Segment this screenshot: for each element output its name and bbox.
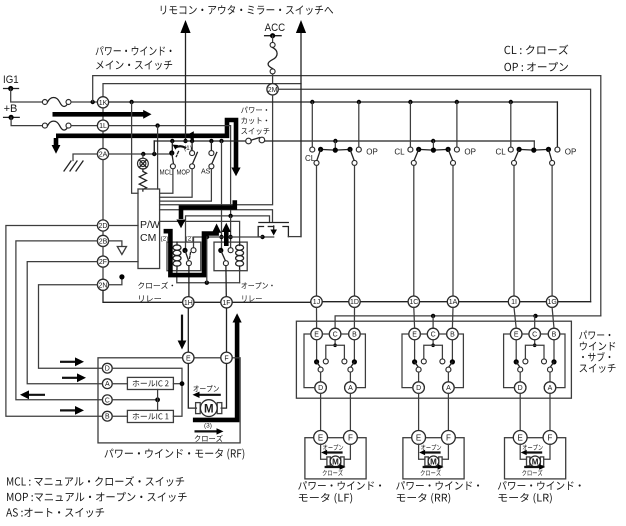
svg-text:1G: 1G — [547, 299, 556, 306]
arrow A line — [62, 373, 86, 382]
wire B to IC1 — [112, 415, 127, 417]
svg-text:D: D — [518, 385, 523, 392]
svg-text:2M: 2M — [268, 87, 278, 94]
wire 1K top to mirror line — [103, 84, 301, 97]
wire +B to fuse — [11, 117, 42, 125]
box hall IC1 — [127, 410, 173, 422]
motor LF symbol — [327, 456, 344, 467]
svg-text:1A: 1A — [449, 299, 458, 306]
motor LF connectors E F — [314, 431, 358, 445]
svg-text:C: C — [431, 332, 436, 339]
connector 2F — [97, 247, 108, 268]
svg-text:2A: 2A — [99, 152, 108, 159]
wire close relay to 1H — [188, 266, 190, 297]
wire 1K-row feed to P/W CM — [132, 102, 138, 193]
labels MCL MOP AS — [160, 169, 211, 177]
wire 1J to E1 — [316, 307, 318, 328]
fuse F2 — [42, 121, 71, 130]
wire power-cut riser to open relay contact — [228, 216, 232, 248]
label motor LF — [298, 481, 381, 504]
svg-text:B: B — [105, 414, 110, 421]
thick flow close relay loop — [164, 224, 222, 276]
close relay coil — [173, 242, 181, 271]
RR door switch — [394, 102, 476, 296]
svg-text:M: M — [204, 403, 214, 415]
motor LF wires — [321, 444, 351, 459]
wire fuse to 1K — [71, 100, 96, 104]
svg-text:A: A — [446, 385, 451, 392]
svg-text:A: A — [105, 381, 110, 388]
fuse ACC — [268, 36, 277, 84]
connector 1C — [408, 296, 419, 307]
wire 2A to ground — [73, 154, 97, 161]
switch MCL — [169, 141, 186, 169]
arrow annotation down to ground — [52, 138, 61, 154]
wire 1I to E3 — [514, 307, 516, 328]
wire 1D to B1 — [353, 307, 355, 328]
wire C to IC tap — [112, 390, 160, 411]
sub switch LF — [304, 328, 365, 393]
connector E — [183, 352, 194, 363]
svg-text:C: C — [105, 397, 110, 404]
connector 1A — [447, 296, 458, 307]
svg-text:B: B — [352, 332, 357, 339]
wire IG1 to fuse — [11, 89, 42, 103]
thick flow ACC to close coil — [176, 200, 234, 228]
wire 1H to 1F — [194, 301, 221, 303]
wire 2M row to right rail — [278, 89, 590, 301]
thick flow open up arrow — [222, 223, 231, 246]
fuse F1 — [42, 98, 71, 107]
svg-text:2N: 2N — [99, 282, 108, 289]
svg-text:E: E — [318, 433, 323, 442]
wire MCL return — [160, 169, 173, 193]
wire 2D to B — [6, 226, 103, 417]
label power window motor RF — [104, 449, 244, 460]
C feed bus — [335, 314, 601, 329]
connector 2M — [267, 84, 278, 95]
open relay box — [214, 242, 247, 271]
wire 2A to 2D chain — [102, 160, 104, 220]
wire 2D to CM — [109, 225, 138, 227]
wire F to motor — [221, 364, 226, 409]
wire pivot to gate — [186, 214, 270, 251]
label motor RR — [396, 481, 479, 504]
wire 1C to E2 — [413, 307, 416, 328]
svg-text:M: M — [430, 457, 437, 466]
wire MOP return — [160, 169, 193, 197]
close relay contact — [182, 248, 196, 266]
motor LR connectors E F — [513, 431, 557, 445]
svg-text:1D: 1D — [350, 299, 359, 306]
connector 2B — [97, 231, 108, 246]
relay labels — [138, 282, 273, 302]
svg-text:E: E — [518, 433, 523, 442]
svg-text:IG1: IG1 — [3, 74, 19, 86]
wire D to IC right rail — [112, 368, 184, 416]
terminal +B — [4, 103, 20, 120]
wire sub switch to motor RR — [419, 393, 449, 430]
svg-text:M: M — [532, 457, 539, 466]
label sub switch — [579, 330, 615, 372]
svg-text:E: E — [186, 355, 191, 362]
svg-text:CM: CM — [140, 232, 156, 244]
svg-text:M: M — [332, 457, 339, 466]
wire CM to FET gate — [160, 210, 273, 222]
labels (2) (2) — [161, 236, 194, 243]
motor LR symbol — [527, 456, 544, 467]
svg-text:P/W: P/W — [140, 219, 160, 231]
wire sub switch to motor LR — [520, 393, 550, 430]
thick flow line 1L to power-cut — [56, 120, 241, 176]
svg-text:E: E — [416, 433, 421, 442]
connector 1F — [221, 297, 232, 308]
connector 1K — [97, 97, 108, 108]
wire 2B to float triangle — [109, 241, 122, 246]
svg-text:D: D — [105, 366, 110, 373]
svg-text:+B: +B — [4, 103, 18, 115]
coil return wire — [177, 237, 240, 285]
svg-text:MCL: MCL — [160, 170, 173, 177]
svg-text:OP: OP — [565, 148, 577, 157]
svg-text:1K: 1K — [99, 100, 108, 107]
svg-text:E: E — [412, 332, 417, 339]
main switch feed wire y141 — [154, 139, 534, 154]
wire AS riser — [219, 141, 223, 250]
mirror switch line 1 — [180, 20, 190, 143]
svg-text:OP: OP — [366, 148, 378, 157]
wire 1L feed to P/W CM top — [157, 126, 159, 189]
wire A to IC2 — [112, 383, 127, 385]
connector 1I — [508, 296, 519, 307]
svg-text:(2): (2) — [186, 236, 194, 243]
svg-text:AS: AS — [201, 169, 211, 176]
svg-text:D: D — [318, 385, 323, 392]
connector 1G — [546, 296, 557, 307]
motor RR flow labels — [419, 444, 444, 476]
arrow close-flow down — [178, 315, 187, 350]
svg-text:1C: 1C — [409, 299, 418, 306]
arrow annotation +B flow — [53, 110, 152, 119]
wire 1H to E — [187, 308, 189, 352]
wire 2N to D — [39, 285, 103, 368]
svg-text:B: B — [450, 332, 455, 339]
svg-text:OP: OP — [464, 148, 476, 157]
FET source wire — [194, 235, 274, 250]
svg-text:F: F — [348, 433, 353, 442]
motor RR symbol — [425, 456, 442, 467]
wire 1G to B3 — [552, 307, 554, 328]
svg-text:D: D — [416, 385, 421, 392]
svg-text:1F: 1F — [222, 300, 230, 307]
arrow B line — [60, 406, 84, 415]
open relay contact — [218, 248, 233, 266]
motor RR box — [403, 438, 464, 479]
wire 2F to CM — [109, 261, 138, 263]
connector A — [102, 379, 112, 389]
svg-text:ACC: ACC — [265, 22, 286, 34]
thick flow open: motor to 1F — [193, 313, 242, 420]
motor LR box — [505, 438, 566, 479]
wire CM to open relay coil — [160, 221, 240, 245]
wire chain 1K-1L-2A — [102, 108, 104, 148]
wire 1F to 1J row — [232, 301, 311, 303]
terminal ACC — [265, 22, 286, 38]
label open + arrow — [193, 385, 221, 398]
label: to remote outer mirror switch — [161, 5, 333, 15]
connector 2D — [97, 220, 108, 231]
label: power cut switch — [241, 107, 269, 135]
wire sub switch to motor LF — [321, 393, 351, 430]
svg-text:2B: 2B — [99, 238, 108, 245]
motor RF box — [98, 358, 240, 443]
main bus 1K row — [109, 100, 558, 104]
power cut switch — [246, 137, 265, 144]
connector F — [221, 352, 232, 363]
resistor R1 — [139, 169, 146, 191]
svg-text:A: A — [348, 385, 353, 392]
sub switch RR — [402, 328, 463, 393]
connector 1H — [183, 297, 194, 308]
svg-text:(2): (2) — [161, 236, 169, 243]
wire 2N down to relay common row — [103, 290, 183, 302]
label close + arrow — [195, 428, 224, 442]
svg-text:B: B — [552, 332, 557, 339]
LF door switch — [305, 102, 378, 296]
wire E to motor — [188, 364, 196, 409]
label (3) — [204, 423, 212, 430]
svg-text:1J: 1J — [313, 299, 320, 306]
connector C — [102, 395, 112, 405]
legend — [6, 476, 187, 517]
label: power window main switch — [96, 46, 173, 70]
svg-text:2D: 2D — [99, 223, 108, 230]
lamp — [138, 154, 149, 169]
svg-text:A: A — [548, 385, 553, 392]
svg-text:C: C — [333, 332, 338, 339]
switch AS — [209, 141, 217, 169]
arrow D line — [60, 357, 84, 366]
close relay box — [167, 242, 201, 271]
motor M RF — [196, 400, 222, 417]
wire 2F to A — [27, 262, 102, 384]
svg-text:C: C — [532, 332, 537, 339]
wire 1L row — [109, 123, 231, 215]
FET drain wire — [288, 236, 301, 238]
motor LR flow labels — [521, 444, 546, 476]
connector 2N — [97, 267, 108, 290]
connector 1J — [311, 296, 322, 307]
label motor LR — [498, 481, 581, 504]
wire 1K up-left feed to right rail — [93, 76, 601, 316]
box hall IC2 — [127, 377, 173, 389]
motor LF box — [305, 438, 366, 479]
svg-text:MOP: MOP — [177, 170, 191, 177]
motor RR connectors E F — [412, 431, 456, 445]
terminal IG1 — [3, 74, 19, 91]
switch MOP — [190, 141, 198, 169]
svg-text:E: E — [514, 332, 519, 339]
wire 2A row to switch pivot — [109, 141, 172, 156]
legend CL OP — [504, 45, 568, 72]
ground — [64, 161, 83, 171]
svg-text:F: F — [224, 355, 228, 362]
MOSFET Q1 — [258, 223, 288, 237]
svg-text:1H: 1H — [184, 300, 193, 307]
arrow C line — [20, 390, 45, 399]
svg-text:CL: CL — [394, 148, 405, 157]
connector 1L — [97, 120, 108, 131]
LR door switch — [496, 102, 577, 296]
svg-text:(3): (3) — [204, 423, 212, 430]
wire connector row bus — [311, 301, 591, 303]
motor RR wires — [419, 444, 449, 459]
svg-text:E: E — [314, 332, 319, 339]
wire 1A to B2 — [451, 307, 454, 328]
svg-text:1I: 1I — [511, 299, 517, 306]
mirror switch line 2 / FET drain riser — [296, 20, 306, 237]
svg-text:F: F — [446, 433, 451, 442]
wire open relay to 1F — [225, 266, 227, 297]
wire AS return — [160, 169, 212, 201]
sub switch LR — [504, 328, 565, 393]
svg-text:CL: CL — [305, 154, 316, 163]
wire fuse to 1L — [71, 125, 96, 127]
box P/W CM — [138, 189, 160, 269]
motor LF flow labels — [321, 444, 346, 476]
connector 2A — [97, 148, 108, 159]
connector B — [102, 411, 112, 421]
wire 2M down feed — [160, 95, 273, 205]
svg-text:1L: 1L — [99, 123, 107, 130]
connector 1D — [349, 296, 360, 307]
wire 2B to C — [16, 241, 103, 400]
label (1) — [184, 145, 192, 152]
sub switch box — [296, 321, 571, 398]
stub 2N node — [109, 274, 125, 285]
motor LR wires — [520, 444, 550, 459]
connector D — [102, 363, 112, 373]
svg-text:CL: CL — [496, 148, 507, 157]
svg-text:2F: 2F — [99, 259, 107, 266]
open relay coil — [236, 242, 244, 271]
wire 1F to F — [226, 308, 228, 352]
float triangle — [117, 247, 126, 255]
svg-text:F: F — [548, 433, 553, 442]
